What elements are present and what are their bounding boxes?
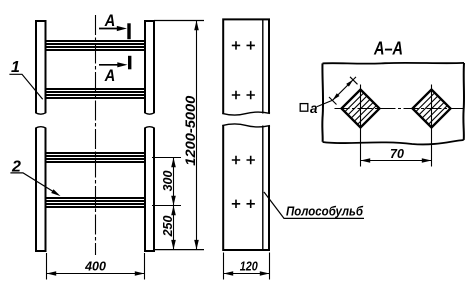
svg-text:120: 120: [240, 259, 258, 273]
weld marks (+) rung3: [232, 156, 255, 164]
right rail lower break line: [145, 127, 155, 128]
dimension 400: dim line + arrows: [47, 273, 145, 275]
weld marks (+) rung1: [232, 41, 255, 49]
side view upper panel outline: [223, 19, 269, 113]
svg-text:A: A: [104, 66, 115, 85]
label: square symbol + a: [300, 104, 308, 112]
side view lower panel outline: [223, 126, 269, 251]
dimension 120: dim line + arrows: [224, 273, 270, 275]
svg-text:400: 400: [84, 259, 106, 273]
svg-text:A: A: [104, 11, 115, 30]
leader from square-a label: [317, 100, 333, 106]
weld marks (+) rung2: [232, 91, 255, 99]
svg-text:1200-5000: 1200-5000: [182, 95, 198, 165]
svg-text:А–А: А–А: [373, 39, 403, 59]
side view bulb edge line (upper): [262, 20, 264, 114]
extension of upper-right side beyond top vertex: [350, 77, 358, 85]
left rail lower break line: [36, 127, 47, 128]
svg-text:300: 300: [161, 171, 175, 192]
dimension 1200-5000: extension lines top/bottom: [154, 21, 204, 250]
side view upper panel break line: [222, 112, 270, 115]
rung 2: [45, 89, 146, 98]
right rail upper break line: [145, 113, 155, 114]
side view lower panel break line: [222, 124, 270, 127]
svg-text:Полособульб: Полособульб: [286, 204, 364, 219]
left rail bottom cap: [35, 250, 47, 252]
svg-text:a: a: [310, 101, 318, 116]
dimension 400: extension lines: [47, 253, 145, 280]
leader for label 2: [10, 173, 58, 195]
left rail, lower segment: [36, 128, 46, 251]
slanted dimension line with two arrowheads: [333, 77, 357, 100]
rung 1 (two square bars, 4 lines): [45, 41, 146, 50]
dimension 70: dim line + arrows: [361, 160, 432, 162]
leader line for Polosobulb label: [264, 192, 364, 218]
leader for label 1: [9, 74, 42, 99]
horizontal centerline through bars: [335, 108, 465, 110]
weld marks (+) rung4: [232, 200, 255, 208]
section cut mark upper: arrow + thick bar: [99, 23, 131, 39]
centerline of ladder (vertical dash-dot): [95, 15, 97, 255]
right rail, lower segment: [145, 128, 154, 251]
svg-text:250: 250: [161, 216, 175, 238]
dimension 300/250 extension lines: [152, 158, 181, 206]
rung 4: [45, 198, 146, 207]
side view bulb edge line (lower): [262, 126, 264, 251]
svg-text:1: 1: [11, 59, 20, 76]
dimension 1200-5000: dim line + arrows: [196, 21, 198, 250]
right rail, upper segment: [145, 21, 154, 113]
dimension 120: extension lines: [224, 253, 270, 280]
square side dimension: extension of lower-left side beyond left vertex: [329, 97, 337, 105]
vertical centerline left bar: [360, 85, 362, 167]
right rail bottom cap: [144, 250, 155, 252]
svg-text:70: 70: [390, 147, 404, 161]
left rail upper break line: [36, 113, 47, 114]
section cut mark lower: arrow + thick bar: [99, 56, 131, 70]
vertical centerline right bar: [431, 85, 433, 167]
dimension 300: dim line + arrows: [173, 158, 175, 206]
rung 3: [45, 153, 146, 162]
left rail, upper segment: [36, 21, 46, 113]
dimension 250: dim line + arrows: [173, 206, 175, 250]
plate outline (broken-out piece, wavy edges): [323, 62, 465, 65]
